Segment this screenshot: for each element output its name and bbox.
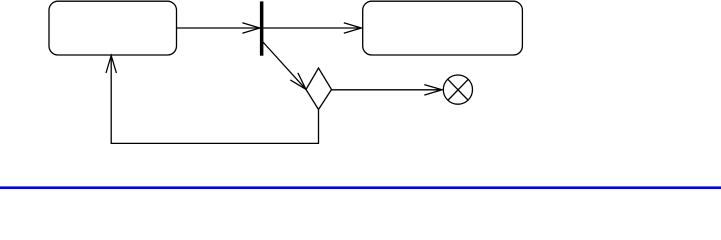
action state 2 (rounded rectangle, top-right) xyxy=(363,1,523,55)
wire: edge from action state 1 to fork bar xyxy=(177,27,260,29)
blue divider line at bottom xyxy=(0,186,721,189)
wire: diagonal edge from fork bar to decision diamond xyxy=(262,41,306,89)
arrowhead into flow final xyxy=(424,85,442,96)
flow final node (circle with X) xyxy=(443,75,472,104)
arrowhead into fork bar xyxy=(242,23,260,33)
fork bar (synch bar) xyxy=(260,1,264,55)
arrowhead into decision diamond xyxy=(290,73,306,89)
decision diamond xyxy=(306,68,332,110)
wire: edge from fork bar to action state 2 xyxy=(263,27,361,29)
wire: loop-back edge from diamond bottom, down, left and up into action state 1 xyxy=(111,56,318,144)
wire: edge from decision diamond to flow final xyxy=(332,89,443,91)
arrowhead into action state 2 xyxy=(344,23,362,33)
arrowhead into bottom of action state 1 (pointing up) xyxy=(106,56,116,74)
action state 1 (rounded rectangle, top-left) xyxy=(49,1,177,55)
